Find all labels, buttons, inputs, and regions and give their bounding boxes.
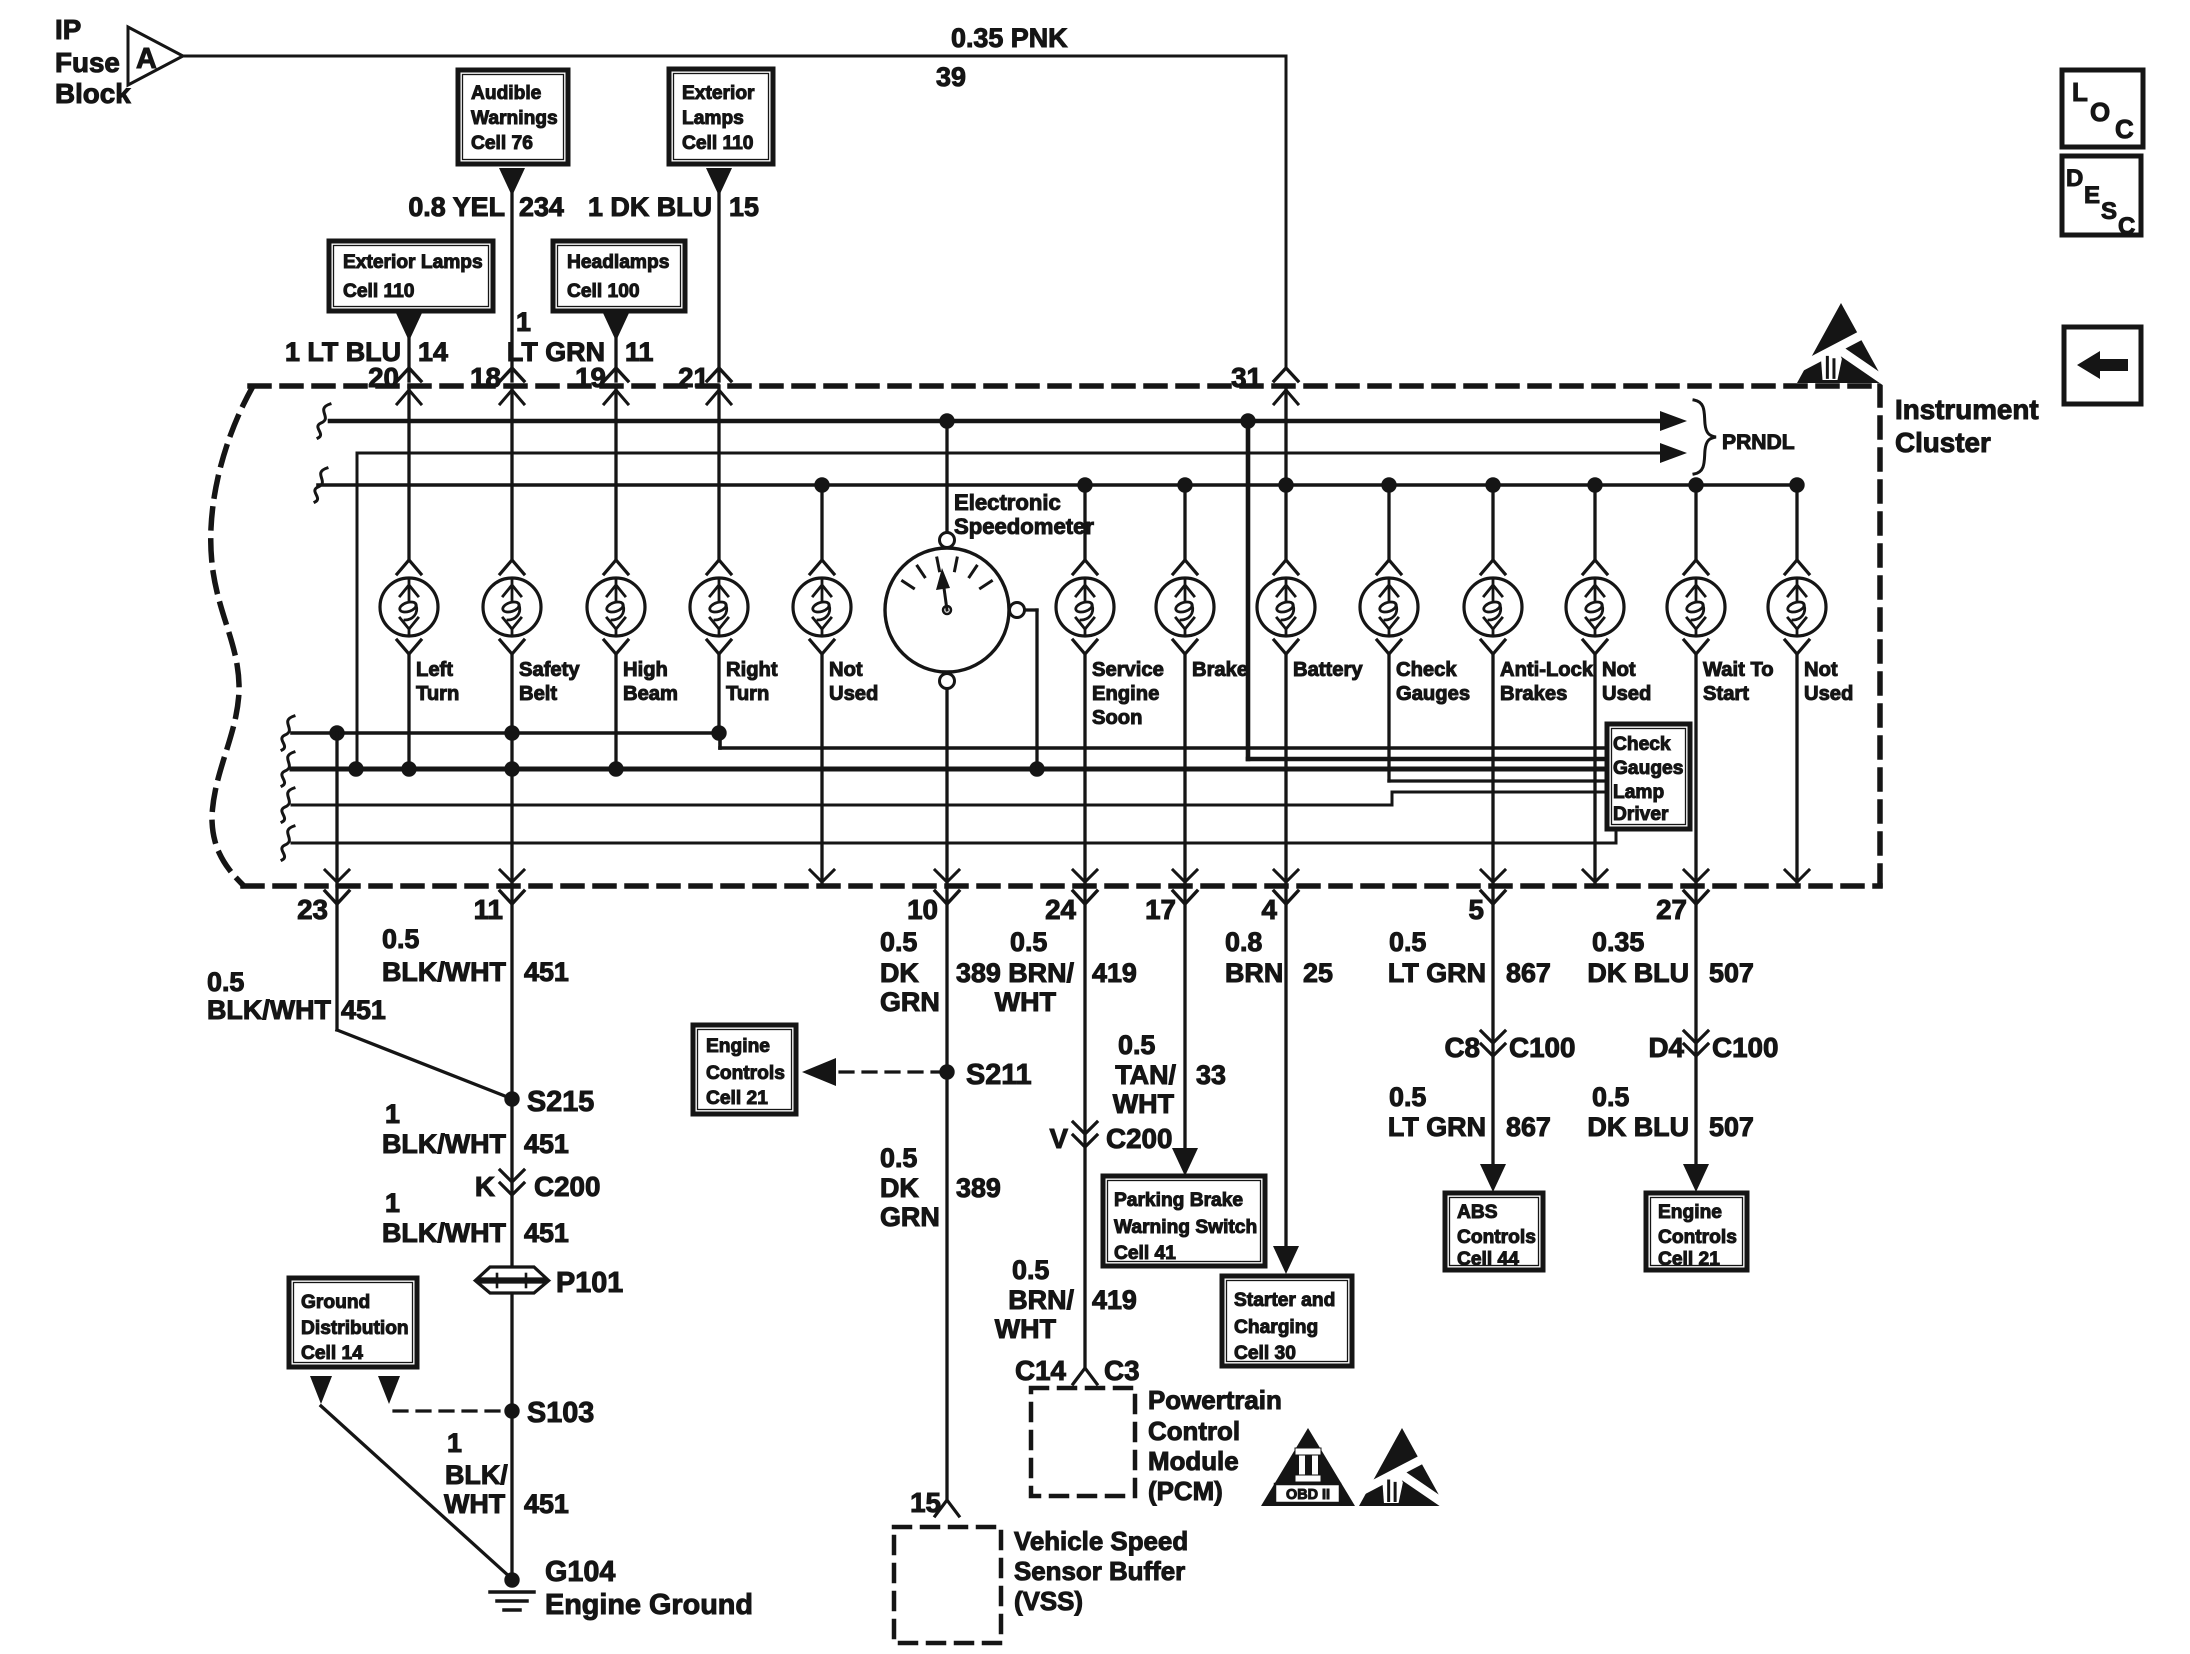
svg-text:IP: IP [55, 14, 81, 45]
svg-text:Cell 110: Cell 110 [682, 133, 753, 154]
svg-text:419: 419 [1092, 1285, 1137, 1315]
svg-text:0.8 YEL: 0.8 YEL [408, 192, 505, 222]
svg-text:11: 11 [625, 337, 653, 367]
svg-text:17: 17 [1145, 894, 1176, 925]
svg-text:39: 39 [936, 62, 966, 92]
svg-text:V: V [1049, 1123, 1068, 1154]
svg-text:1: 1 [516, 307, 531, 337]
svg-text:Module: Module [1148, 1448, 1239, 1476]
svg-text:Headlamps: Headlamps [567, 252, 669, 273]
svg-text:Powertrain: Powertrain [1148, 1387, 1282, 1415]
svg-text:Electronic: Electronic [954, 490, 1061, 515]
svg-text:389: 389 [956, 1173, 1001, 1203]
svg-text:ABS: ABS [1457, 1202, 1498, 1223]
svg-text:Ground: Ground [301, 1292, 370, 1313]
svg-text:A: A [136, 43, 157, 75]
svg-text:BLK/WHT: BLK/WHT [382, 957, 507, 987]
svg-text:0.5: 0.5 [1389, 1082, 1426, 1112]
svg-text:Not: Not [1602, 659, 1636, 681]
svg-text:Cell 44: Cell 44 [1457, 1249, 1519, 1270]
svg-text:Cell 100: Cell 100 [567, 281, 640, 302]
svg-text:WHT: WHT [995, 1314, 1057, 1344]
svg-text:O: O [2090, 99, 2110, 127]
svg-text:15: 15 [729, 192, 759, 222]
svg-text:10: 10 [907, 894, 938, 925]
svg-text:C: C [2118, 213, 2135, 240]
svg-text:S211: S211 [966, 1059, 1032, 1091]
svg-text:C200: C200 [534, 1171, 600, 1202]
svg-text:Used: Used [1804, 683, 1853, 705]
svg-text:(VSS): (VSS) [1014, 1588, 1083, 1616]
svg-text:BLK/WHT: BLK/WHT [382, 1218, 507, 1248]
svg-text:Cell 41: Cell 41 [1114, 1243, 1176, 1264]
svg-text:33: 33 [1196, 1060, 1226, 1090]
svg-text:0.5: 0.5 [1592, 1082, 1629, 1112]
svg-text:GRN: GRN [880, 1202, 940, 1232]
svg-text:Check: Check [1613, 734, 1671, 755]
svg-text:DK: DK [880, 958, 919, 988]
svg-text:Start: Start [1703, 683, 1749, 705]
svg-text:451: 451 [524, 1218, 569, 1248]
svg-text:Parking Brake: Parking Brake [1114, 1190, 1243, 1211]
svg-text:Fuse: Fuse [55, 47, 120, 78]
svg-text:High: High [623, 659, 668, 681]
svg-text:PRNDL: PRNDL [1722, 431, 1795, 454]
svg-text:0.35: 0.35 [1592, 927, 1644, 957]
svg-text:451: 451 [524, 1129, 569, 1159]
svg-text:Beam: Beam [623, 683, 678, 705]
svg-text:C14: C14 [1015, 1355, 1067, 1386]
svg-text:DK BLU: DK BLU [1587, 1112, 1689, 1142]
svg-text:867: 867 [1506, 1112, 1551, 1142]
svg-text:Speedometer: Speedometer [954, 514, 1094, 539]
svg-text:1: 1 [385, 1099, 400, 1129]
svg-text:Engine: Engine [1092, 683, 1159, 705]
svg-text:11: 11 [474, 894, 503, 925]
svg-text:Used: Used [1602, 683, 1651, 705]
svg-text:Gauges: Gauges [1396, 683, 1470, 705]
svg-text:WHT: WHT [995, 987, 1057, 1017]
svg-text:DK: DK [880, 1173, 919, 1203]
svg-text:Driver: Driver [1613, 804, 1669, 825]
svg-text:Exterior Lamps: Exterior Lamps [343, 252, 483, 273]
svg-text:451: 451 [341, 995, 386, 1025]
svg-text:0.5: 0.5 [880, 927, 917, 957]
svg-text:WHT: WHT [1113, 1089, 1175, 1119]
svg-text:Not: Not [1804, 659, 1838, 681]
svg-text:Wait To: Wait To [1703, 659, 1774, 681]
svg-text:Engine: Engine [706, 1036, 770, 1057]
svg-text:0.8: 0.8 [1225, 927, 1262, 957]
svg-text:Vehicle Speed: Vehicle Speed [1014, 1528, 1188, 1556]
svg-text:Exterior: Exterior [682, 83, 755, 104]
svg-text:Lamps: Lamps [682, 108, 744, 129]
svg-text:S103: S103 [527, 1397, 594, 1429]
svg-text:23: 23 [297, 894, 328, 925]
svg-text:4: 4 [1262, 894, 1278, 925]
svg-text:Controls: Controls [706, 1063, 785, 1084]
svg-text:BLK/: BLK/ [445, 1460, 508, 1490]
svg-text:0.5: 0.5 [880, 1143, 917, 1173]
svg-text:Brakes: Brakes [1500, 683, 1567, 705]
svg-text:1 DK BLU: 1 DK BLU [588, 192, 712, 222]
svg-text:507: 507 [1709, 958, 1754, 988]
svg-text:Instrument: Instrument [1895, 394, 2039, 425]
svg-text:Distribution: Distribution [301, 1318, 409, 1339]
svg-text:TAN/: TAN/ [1115, 1060, 1176, 1090]
svg-text:25: 25 [1303, 958, 1333, 988]
svg-text:0.35 PNK: 0.35 PNK [951, 23, 1068, 53]
svg-text:S: S [2101, 198, 2117, 225]
svg-text:Belt: Belt [519, 683, 557, 705]
svg-text:Warnings: Warnings [471, 108, 558, 129]
svg-text:0.5: 0.5 [1010, 927, 1047, 957]
svg-text:C100: C100 [1712, 1032, 1778, 1063]
svg-text:G104: G104 [545, 1556, 615, 1588]
svg-text:D: D [2066, 165, 2083, 192]
svg-text:Control: Control [1148, 1418, 1240, 1446]
svg-text:Cell 21: Cell 21 [1658, 1249, 1720, 1270]
svg-text:BRN: BRN [1225, 958, 1283, 988]
svg-text:Soon: Soon [1092, 707, 1142, 729]
svg-text:Controls: Controls [1658, 1227, 1737, 1248]
svg-text:Used: Used [829, 683, 878, 705]
svg-text:507: 507 [1709, 1112, 1754, 1142]
svg-text:Not: Not [829, 659, 863, 681]
svg-text:5: 5 [1469, 894, 1484, 925]
svg-text:0.5: 0.5 [1012, 1255, 1049, 1285]
svg-text:BRN/: BRN/ [1008, 1285, 1074, 1315]
svg-text:Cell 30: Cell 30 [1234, 1343, 1296, 1364]
svg-text:Turn: Turn [726, 683, 769, 705]
svg-text:451: 451 [524, 1489, 569, 1519]
svg-text:LT GRN: LT GRN [1388, 1112, 1486, 1142]
svg-text:867: 867 [1506, 958, 1551, 988]
svg-text:Warning Switch: Warning Switch [1114, 1217, 1257, 1238]
svg-text:Engine Ground: Engine Ground [545, 1589, 753, 1621]
svg-text:Cell 21: Cell 21 [706, 1088, 768, 1109]
svg-text:Engine: Engine [1658, 1202, 1722, 1223]
svg-text:0.5: 0.5 [1389, 927, 1426, 957]
svg-text:Left: Left [416, 659, 453, 681]
svg-text:(PCM): (PCM) [1148, 1478, 1223, 1506]
svg-text:C3: C3 [1104, 1355, 1140, 1386]
svg-text:C8: C8 [1444, 1032, 1480, 1063]
svg-text:C100: C100 [1509, 1032, 1575, 1063]
svg-text:Gauges: Gauges [1613, 758, 1683, 779]
svg-text:0.5: 0.5 [382, 924, 419, 954]
svg-text:S215: S215 [527, 1086, 594, 1118]
svg-text:Charging: Charging [1234, 1317, 1318, 1338]
svg-text:C: C [2115, 116, 2134, 144]
svg-text:Safety: Safety [519, 659, 580, 681]
svg-text:BLK/WHT: BLK/WHT [382, 1129, 507, 1159]
svg-text:K: K [475, 1171, 495, 1202]
svg-text:Sensor Buffer: Sensor Buffer [1014, 1558, 1185, 1586]
svg-text:Cell 14: Cell 14 [301, 1343, 363, 1364]
svg-text:15: 15 [910, 1487, 941, 1518]
svg-text:14: 14 [418, 337, 448, 367]
svg-text:Controls: Controls [1457, 1227, 1536, 1248]
svg-text:Starter and: Starter and [1234, 1290, 1335, 1311]
svg-text:24: 24 [1045, 894, 1076, 925]
svg-text:419: 419 [1092, 958, 1137, 988]
svg-text:Anti-Lock: Anti-Lock [1500, 659, 1594, 681]
svg-text:234: 234 [519, 192, 564, 222]
svg-text:Check: Check [1396, 659, 1457, 681]
svg-text:D4: D4 [1648, 1032, 1684, 1063]
svg-text:1: 1 [385, 1188, 400, 1218]
svg-text:Brake: Brake [1192, 659, 1248, 681]
svg-text:Service: Service [1092, 659, 1164, 681]
svg-text:Battery: Battery [1293, 659, 1363, 681]
svg-text:Cell 110: Cell 110 [343, 281, 414, 302]
svg-text:27: 27 [1656, 894, 1687, 925]
svg-text:GRN: GRN [880, 987, 940, 1017]
svg-text:OBD II: OBD II [1286, 1487, 1330, 1503]
svg-text:Turn: Turn [416, 683, 459, 705]
svg-text:WHT: WHT [444, 1489, 506, 1519]
svg-text:Right: Right [726, 659, 778, 681]
svg-text:BLK/WHT: BLK/WHT [207, 995, 332, 1025]
svg-text:Lamp: Lamp [1613, 782, 1664, 803]
svg-text:Audible: Audible [471, 83, 542, 104]
svg-text:C200: C200 [1106, 1123, 1172, 1154]
svg-text:Cluster: Cluster [1895, 427, 1991, 458]
svg-text:BRN/: BRN/ [1008, 958, 1074, 988]
svg-text:451: 451 [524, 957, 569, 987]
svg-text:Cell 76: Cell 76 [471, 133, 533, 154]
svg-text:DK BLU: DK BLU [1587, 958, 1689, 988]
svg-text:Block: Block [55, 78, 131, 109]
svg-text:L: L [2072, 79, 2088, 107]
svg-text:E: E [2084, 182, 2100, 209]
svg-text:P101: P101 [556, 1267, 623, 1299]
svg-text:0.5: 0.5 [1118, 1030, 1155, 1060]
svg-text:LT GRN: LT GRN [1388, 958, 1486, 988]
svg-text:1: 1 [447, 1428, 462, 1458]
svg-text:389: 389 [956, 958, 1001, 988]
svg-text:0.5: 0.5 [207, 967, 244, 997]
